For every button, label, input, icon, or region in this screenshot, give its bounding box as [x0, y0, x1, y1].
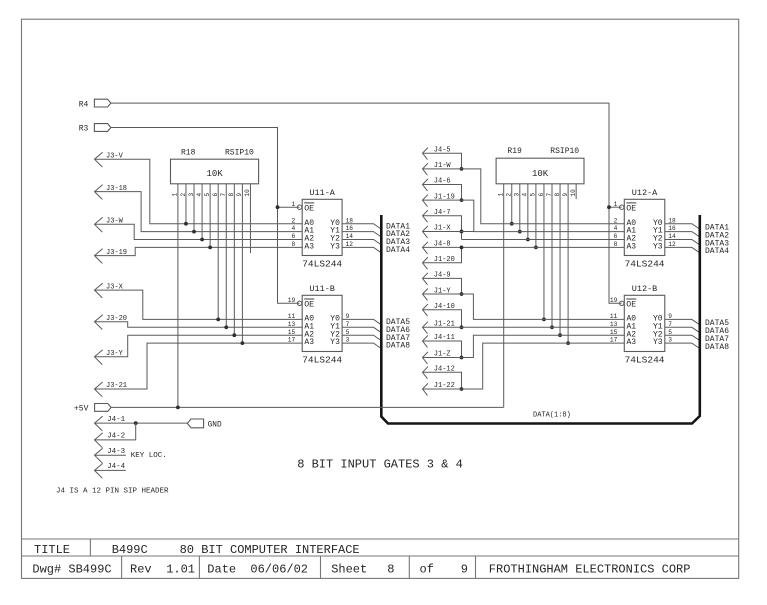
junction R19 pin / input row — [542, 318, 546, 322]
wire J1-20 tie — [423, 247, 462, 262]
resistor network R19 RSIP10 10K — [496, 158, 584, 184]
svg-text:1: 1 — [172, 193, 179, 197]
R18 pin 5 lead — [209, 184, 211, 248]
R18 pin 4 lead — [201, 184, 203, 240]
R19 pin 8 lead — [559, 184, 561, 335]
wire J3-20 to buffer input — [95, 322, 303, 328]
svg-text:A3: A3 — [627, 338, 637, 347]
wire U11-A Y1 (DATA2) to bus — [342, 232, 381, 237]
svg-text:8: 8 — [291, 241, 295, 248]
R18 pin 10 lead — [249, 184, 251, 253]
svg-text:17: 17 — [288, 337, 296, 344]
svg-text:10K: 10K — [532, 169, 549, 179]
svg-text:A3: A3 — [304, 243, 314, 252]
connector J3-20 — [95, 315, 103, 330]
wire U12-A Y2 (DATA3) to bus — [665, 240, 700, 245]
junction R18 pin / input row — [240, 341, 244, 345]
svg-text:U12-A: U12-A — [632, 188, 658, 198]
svg-text:OE: OE — [304, 205, 314, 214]
svg-text:A3: A3 — [627, 243, 637, 252]
svg-text:U11-B: U11-B — [309, 284, 335, 294]
R18 pin 3 lead — [193, 184, 195, 232]
R18 pin 6 lead — [217, 184, 219, 320]
U11-B OE pin 19 bubble — [297, 301, 301, 305]
connector J1-Z — [423, 352, 428, 364]
junction +5V / R18 pin1 — [176, 406, 180, 410]
svg-text:Date: Date — [207, 563, 236, 577]
svg-text:15: 15 — [288, 329, 296, 336]
R19 pin 4 lead — [527, 184, 529, 240]
svg-text:TITLE: TITLE — [34, 543, 70, 557]
svg-text:10K: 10K — [206, 169, 223, 179]
wire J3-18 to buffer input — [95, 192, 303, 232]
wire U12-B Y2 (DATA7) to bus — [665, 335, 700, 340]
junction R18 pin / input row — [200, 238, 204, 242]
R19 pin 3 lead — [519, 184, 521, 232]
title block — [22, 538, 739, 540]
wire J1-Y to buffer input — [423, 294, 625, 319]
signal flag R3 — [94, 124, 111, 132]
wire J4-5 tie — [423, 153, 462, 169]
svg-text:FROTHINGHAM ELECTRONICS CORP: FROTHINGHAM ELECTRONICS CORP — [489, 563, 691, 577]
connector J4-11 — [423, 335, 428, 347]
connector J4-10 — [423, 304, 428, 316]
U12-B OE pin 19 bubble — [620, 301, 624, 305]
svg-text:+5V: +5V — [74, 405, 89, 414]
R19 pin 9 lead — [567, 184, 569, 343]
IC U12-A 74LS244 body — [624, 199, 665, 255]
junction R18 pin / input row — [232, 333, 236, 337]
wire U11-B Y2 (DATA7) to bus — [342, 335, 381, 340]
wire J1-22 to buffer input — [423, 343, 625, 389]
power flag +5V — [95, 404, 112, 412]
U11-A OE pin 1 bubble — [297, 205, 301, 209]
connector J3-19 — [95, 249, 103, 264]
svg-text:8 BIT INPUT GATES 3 & 4: 8 BIT INPUT GATES 3 & 4 — [297, 457, 463, 471]
svg-text:B499C: B499C — [112, 543, 148, 557]
junction R19 pin / input row — [526, 238, 530, 242]
R18 pin 2 lead — [185, 184, 187, 224]
svg-text:4: 4 — [522, 193, 529, 197]
svg-text:7: 7 — [546, 193, 553, 197]
svg-text:GND: GND — [208, 422, 222, 430]
svg-text:Y3: Y3 — [330, 338, 340, 347]
svg-text:8: 8 — [554, 193, 561, 197]
connector J4-8 — [423, 242, 428, 254]
wire branch R3 to U11-A OE — [278, 206, 300, 208]
svg-text:3: 3 — [514, 193, 521, 197]
R18 pin 9 lead — [241, 184, 243, 343]
ground flag GND — [187, 419, 203, 428]
R19 pin 10 lead — [575, 184, 577, 199]
svg-text:J4-3: J4-3 — [107, 448, 126, 456]
svg-text:J4-1: J4-1 — [107, 416, 126, 424]
junction J4-10 — [460, 325, 464, 329]
svg-text:11: 11 — [288, 313, 296, 320]
junction R3/U11-A OE — [276, 205, 280, 209]
svg-text:74LS244: 74LS244 — [625, 355, 665, 366]
junction R19 pin / input row — [534, 246, 538, 250]
junction J4-6 — [460, 198, 464, 202]
connector J3-18 — [95, 185, 103, 200]
connector J1-X — [423, 226, 428, 238]
connector J1-Y — [423, 288, 428, 300]
wire J4-7 tie — [423, 216, 462, 240]
connector J1-21 — [423, 322, 428, 334]
wire U11-A Y2 (DATA3) to bus — [342, 240, 381, 245]
wire J4-10 tie — [423, 310, 462, 328]
connector J4-3 (key location) — [95, 448, 103, 463]
svg-text:OE: OE — [626, 205, 636, 214]
connector J4-1 — [95, 416, 103, 431]
junction R18 pin / input row — [184, 222, 188, 226]
wire J4-12 tie — [423, 372, 462, 389]
wire J4-1 to GND — [95, 422, 188, 424]
junction J4-9 — [460, 292, 464, 296]
connector J4-2 — [95, 433, 103, 448]
svg-text:74LS244: 74LS244 — [302, 259, 342, 270]
svg-text:OE: OE — [626, 301, 636, 310]
R19 pin 5 lead — [535, 184, 537, 248]
svg-text:80 BIT COMPUTER INTERFACE: 80 BIT COMPUTER INTERFACE — [180, 543, 360, 557]
svg-text:9: 9 — [562, 193, 569, 197]
junction R19 pin / input row — [518, 230, 522, 234]
svg-text:Y3: Y3 — [330, 243, 340, 252]
svg-text:DATA8: DATA8 — [705, 343, 729, 352]
junction R18 pin / input row — [224, 325, 228, 329]
wire J4-8 to buffer input — [423, 246, 625, 248]
svg-text:2: 2 — [506, 193, 513, 197]
wire J4-9 tie — [423, 278, 462, 294]
svg-text:3: 3 — [188, 193, 195, 197]
svg-text:U11-A: U11-A — [309, 188, 335, 198]
svg-text:R18: R18 — [181, 149, 196, 158]
wire J4-2 tie to J4-1 — [95, 423, 136, 440]
svg-text:DATA4: DATA4 — [705, 247, 729, 256]
wire J4-11 tie — [423, 341, 462, 358]
junction R18 pin / input row — [192, 230, 196, 234]
wire J1-W to buffer input — [423, 169, 625, 224]
svg-text:OE: OE — [304, 301, 314, 310]
connector J4-12 — [423, 367, 428, 379]
junction J4-5 — [460, 167, 464, 171]
connector J3-X — [95, 283, 103, 298]
IC U12-B 74LS244 body — [624, 295, 665, 351]
svg-text:of: of — [420, 563, 434, 577]
junction R18 pin / input row — [208, 246, 212, 250]
svg-text:74LS244: 74LS244 — [302, 355, 342, 366]
svg-text:8: 8 — [387, 563, 394, 577]
R19 pin 7 lead — [551, 184, 553, 327]
R19 pin 1 lead — [503, 184, 505, 408]
connector J3-21 — [95, 382, 103, 397]
svg-text:Sheet: Sheet — [331, 563, 367, 577]
svg-text:9: 9 — [461, 563, 468, 577]
svg-text:Y3: Y3 — [653, 243, 663, 252]
connector J3-W — [95, 217, 103, 232]
connector J1-22 — [423, 383, 428, 395]
wire U12-B Y1 (DATA6) to bus — [665, 327, 700, 332]
svg-text:5: 5 — [530, 193, 537, 197]
svg-text:2: 2 — [291, 217, 295, 224]
connector J3-V — [95, 152, 103, 167]
IC U11-B 74LS244 body — [302, 295, 342, 351]
wire J3-Y to buffer input — [95, 335, 303, 357]
wire branch R4 to U12-A OE — [609, 206, 622, 208]
svg-text:9: 9 — [236, 193, 243, 197]
U12-A OE pin 1 bubble — [620, 205, 624, 209]
svg-text:RSIP10: RSIP10 — [225, 149, 254, 158]
wire U11-B Y0 (DATA5) to bus — [342, 319, 381, 324]
connector J4-7 — [423, 210, 428, 222]
wire J1-X tail — [423, 230, 474, 232]
wire U12-A Y0 (DATA1) to bus — [665, 224, 700, 229]
svg-text:6: 6 — [538, 193, 545, 197]
junction R19 pin / input row — [510, 222, 514, 226]
svg-text:J4 IS A 12 PIN SIP HEADER: J4 IS A 12 PIN SIP HEADER — [56, 487, 169, 495]
R19 pin 6 lead — [543, 184, 545, 320]
connector J4-6 — [423, 179, 428, 191]
wire U12-B Y0 (DATA5) to bus — [665, 319, 700, 324]
wire R4 to U12-A/U12-B OE — [111, 103, 622, 303]
svg-text:5: 5 — [204, 193, 211, 197]
svg-text:10: 10 — [244, 189, 251, 197]
connector J1-19 — [423, 195, 428, 207]
svg-text:19: 19 — [610, 297, 618, 304]
junction J4-12 — [460, 387, 464, 391]
svg-text:DATA(1:8): DATA(1:8) — [533, 412, 571, 420]
junction R4/U12-A OE — [607, 205, 611, 209]
data bus DATA(1:8) — [381, 215, 700, 424]
svg-text:74LS244: 74LS244 — [625, 259, 665, 270]
resistor network R18 RSIP10 10K — [171, 159, 259, 184]
wire J3-X to buffer input — [95, 290, 303, 319]
svg-text:4: 4 — [196, 193, 203, 197]
wire U11-A Y0 (DATA1) to bus — [342, 224, 381, 229]
svg-text:10: 10 — [570, 189, 577, 197]
wire +5V rail to R18 pin1 and R19 pin1 — [111, 406, 504, 408]
svg-text:8: 8 — [228, 193, 235, 197]
wire J3-V to buffer input — [95, 159, 303, 224]
svg-text:Rev: Rev — [130, 563, 152, 577]
wire J3-19 to buffer input — [95, 247, 303, 255]
svg-text:Y3: Y3 — [653, 338, 663, 347]
wire J3-21 to buffer input — [95, 343, 303, 389]
svg-text:DATA8: DATA8 — [386, 342, 410, 351]
junction J4-7 — [460, 230, 464, 234]
svg-text:6: 6 — [291, 233, 295, 240]
junction R19 pin / input row — [558, 333, 562, 337]
wire J1-21 to buffer input — [423, 326, 625, 328]
svg-text:2: 2 — [180, 193, 187, 197]
wire U12-A Y3 (DATA4) to bus — [665, 247, 700, 252]
svg-text:1: 1 — [614, 201, 618, 208]
R19 pin 2 lead — [511, 184, 513, 224]
R18 pin 1 lead — [177, 184, 179, 408]
IC U11-A 74LS244 body — [302, 199, 342, 255]
junction J1-20 — [460, 246, 464, 250]
svg-text:RSIP10: RSIP10 — [550, 147, 579, 156]
svg-text:06/06/02: 06/06/02 — [250, 563, 308, 577]
junction J4-11 — [460, 356, 464, 360]
svg-text:R4: R4 — [79, 100, 89, 109]
svg-text:1: 1 — [498, 193, 505, 197]
signal flag R4 — [94, 99, 111, 107]
R18 pin 7 lead — [225, 184, 227, 327]
connector J1-W — [423, 163, 428, 175]
svg-text:1: 1 — [291, 201, 295, 208]
connector J4-9 — [423, 273, 428, 285]
svg-text:7: 7 — [220, 193, 227, 197]
R18 pin 8 lead — [233, 184, 235, 335]
connector J3-Y — [95, 350, 103, 365]
wire U11-B Y1 (DATA6) to bus — [342, 327, 381, 332]
svg-text:U12-B: U12-B — [632, 284, 658, 294]
connector J4-5 — [423, 148, 428, 160]
junction R19 pin / input row — [566, 341, 570, 345]
wire U12-B Y3 (DATA8) to bus — [665, 343, 700, 348]
svg-text:1.01: 1.01 — [166, 563, 195, 577]
connector J1-20 — [423, 257, 428, 269]
wire R3 to U11-A/U11-B OE — [111, 128, 300, 304]
junction R19 pin / input row — [550, 325, 554, 329]
wire U11-A Y3 (DATA4) to bus — [342, 247, 381, 252]
wire U12-A Y1 (DATA2) to bus — [665, 232, 700, 237]
wire J4-6 tie — [423, 185, 462, 201]
svg-text:KEY LOC.: KEY LOC. — [131, 452, 167, 460]
svg-text:6: 6 — [212, 193, 219, 197]
junction R18 pin / input row — [216, 318, 220, 322]
wire J1-19 to buffer input — [423, 200, 625, 231]
svg-text:13: 13 — [288, 321, 296, 328]
svg-text:DATA4: DATA4 — [386, 246, 410, 255]
connector J4-4 — [95, 463, 103, 478]
wire J1-Z to buffer input — [423, 335, 625, 357]
junction J4-1/J4-2 — [134, 421, 138, 425]
wire J3-W to buffer input — [95, 224, 303, 239]
wire J4-7/J1-X down-jog to A2 row — [462, 239, 625, 241]
svg-text:A3: A3 — [304, 338, 314, 347]
svg-text:4: 4 — [291, 225, 295, 232]
wire U11-B Y3 (DATA8) to bus — [342, 343, 381, 348]
svg-text:19: 19 — [288, 297, 296, 304]
svg-text:R3: R3 — [79, 125, 89, 134]
svg-text:R19: R19 — [507, 147, 522, 156]
svg-text:Dwg# SB499C: Dwg# SB499C — [32, 563, 111, 577]
